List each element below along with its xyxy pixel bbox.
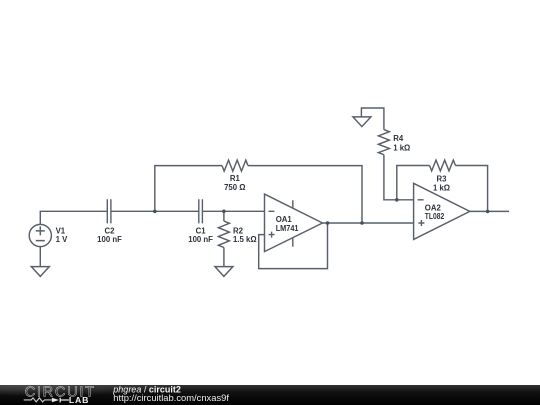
svg-text:100 nF: 100 nF (188, 235, 213, 244)
svg-text:1 kΩ: 1 kΩ (433, 184, 450, 193)
svg-text:R1: R1 (230, 174, 241, 183)
svg-text:1 kΩ: 1 kΩ (393, 144, 410, 153)
capacitor C2 (107, 199, 111, 223)
voltage source V1 (29, 224, 51, 246)
wire OA1 output to OA2 plus input (323, 222, 414, 224)
resistor R1 (222, 160, 248, 171)
CircuitLab logo diode (52, 398, 59, 403)
svg-text:R3: R3 (437, 174, 448, 183)
ground (R2) (215, 267, 233, 277)
wire R3 right branch down to OA2 output (456, 166, 488, 212)
op-amp OA1 (265, 194, 323, 252)
svg-text:R2: R2 (233, 227, 244, 236)
wire V1 bottom to ground (39, 247, 41, 267)
svg-text:V1: V1 (56, 227, 66, 236)
wire C2 to C1 (111, 210, 199, 212)
resistor R4 (378, 130, 389, 155)
svg-text:100 nF: 100 nF (97, 235, 122, 244)
node: R3 right / OA2 output junction (486, 210, 490, 214)
node: R1 right / OA2 plus junction (360, 221, 364, 225)
node: OA1 output junction (326, 221, 330, 225)
node: C1 / R2 / OA1 minus junction (222, 210, 226, 214)
wire R2 bottom lead to ground (223, 248, 225, 267)
ground (R4) (353, 117, 371, 127)
wire R1 right branch down to output net (248, 166, 362, 223)
svg-text:OA1: OA1 (276, 215, 293, 224)
footer bar (0, 384, 540, 405)
resistor R2 (218, 221, 229, 247)
svg-text:LAB: LAB (69, 395, 89, 405)
svg-text:C2: C2 (105, 227, 116, 236)
node: R4 / R3 / OA2 minus junction (395, 198, 399, 202)
node: R1 tap on input line (153, 210, 157, 214)
svg-text:TL082: TL082 (425, 212, 445, 221)
wire OA2 output (470, 210, 509, 212)
CircuitLab logo squiggle wire (24, 398, 52, 402)
wire R1 left branch (155, 166, 222, 212)
wire OA1 feedback loop (plus input to output) (259, 223, 328, 269)
svg-text:http://circuitlab.com/cnxas9f: http://circuitlab.com/cnxas9f (113, 392, 229, 403)
wire R3 left branch (397, 166, 430, 200)
wire R4 bottom lead to OA2 minus node (384, 155, 397, 200)
svg-text:750 Ω: 750 Ω (224, 183, 245, 192)
ground (V1) (31, 267, 49, 277)
wire R2 top lead (223, 211, 225, 221)
svg-text:1 V: 1 V (56, 235, 69, 244)
capacitor C1 (199, 199, 203, 223)
wire V1 top to main line (40, 211, 107, 224)
wire OA2 minus input stub (397, 199, 414, 201)
wire R4 top hook to ground (361, 108, 384, 130)
svg-text:OA2: OA2 (425, 204, 442, 213)
wire C1 to OA1 minus input (202, 210, 264, 212)
svg-text:1.5 kΩ: 1.5 kΩ (233, 235, 257, 244)
resistor R3 (430, 160, 456, 171)
svg-text:C1: C1 (196, 227, 207, 236)
svg-text:R4: R4 (393, 134, 404, 143)
op-amp OA2 (414, 183, 470, 239)
svg-text:LM741: LM741 (276, 224, 299, 233)
